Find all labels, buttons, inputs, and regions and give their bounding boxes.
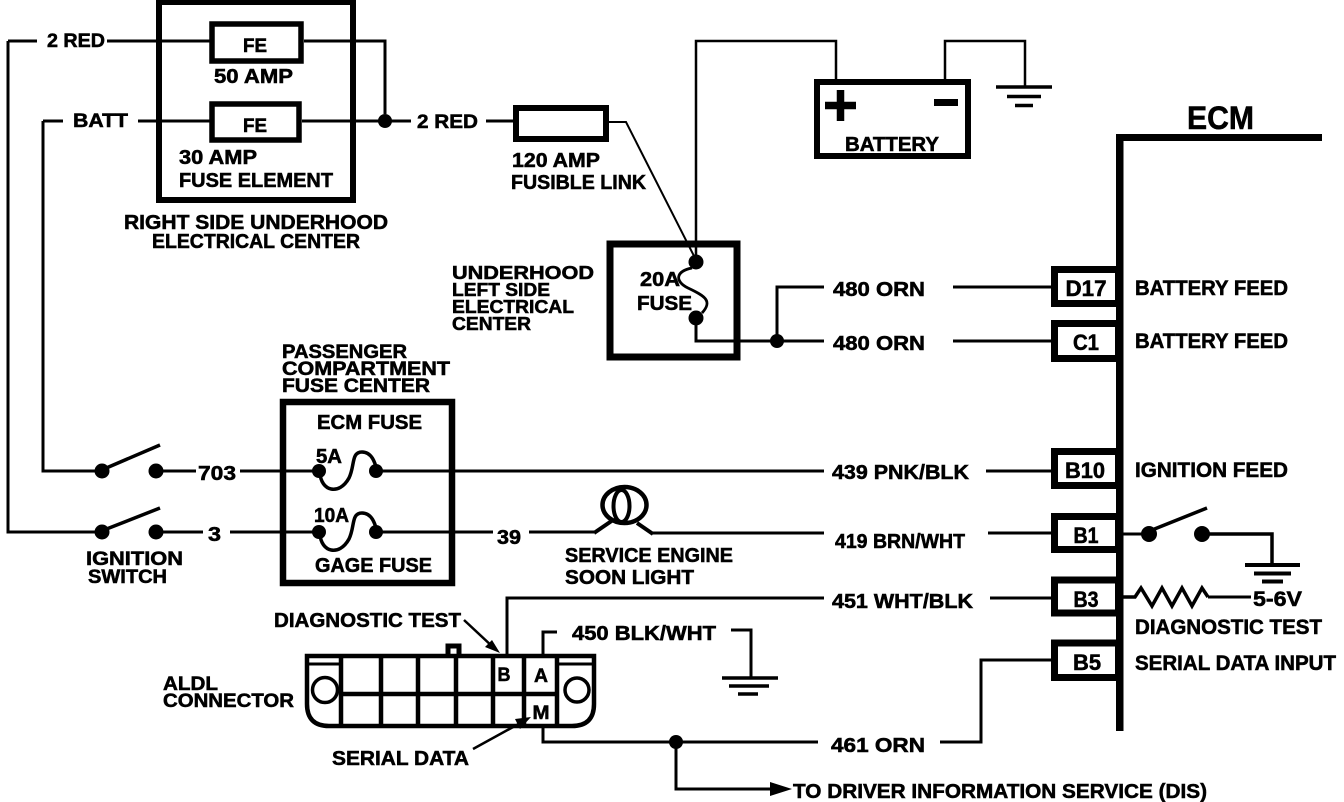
wire 3 into passenger fuse center [230,531,314,534]
node B junction dot (480 ORN) [770,334,784,348]
wire 39 to service engine soon light [529,531,594,534]
connector terminal C1 box [1055,324,1119,359]
svg-text:DIAGNOSTIC TEST: DIAGNOSTIC TEST [274,610,461,632]
svg-text:CONNECTOR: CONNECTOR [163,691,294,712]
wire 461 ORN to connector B5 [940,660,1053,742]
wire 419 BRN/WHT into connector B1 [988,532,1055,535]
diagnostic switch right contact [1194,526,1210,542]
ALDL connector top tab [448,646,459,657]
svg-text:50 AMP: 50 AMP [214,66,293,88]
svg-text:BATTERY FEED: BATTERY FEED [1135,277,1288,300]
wire from 20A fuse output to node B and 480 ORN (C1) [696,325,824,341]
ground G2 symbol (450 BLK/WHT) [722,678,778,694]
lamp base right diagonal [637,523,653,534]
ignition switch pole 1 left contact [95,464,110,479]
svg-text:BATTERY: BATTERY [845,134,940,156]
wire from 30 amp fuse element output through node A to 2 RED label [302,120,411,123]
connector terminal B10 box [1055,452,1119,486]
svg-text:CENTER: CENTER [452,313,531,334]
svg-text:703: 703 [198,463,236,485]
svg-text:BATTERY FEED: BATTERY FEED [1135,330,1288,353]
svg-text:FUSIBLE LINK: FUSIBLE LINK [511,172,647,194]
ALDL connector right mounting hole [565,678,589,702]
diagnostic switch left contact [1141,526,1157,542]
svg-text:B3: B3 [1074,587,1099,612]
wire 461 ORN from ALDL pin M to node C and label [543,727,818,742]
svg-text:461 ORN: 461 ORN [831,735,925,757]
ALDL connector grid verticals [341,658,557,724]
svg-text:439 PNK/BLK: 439 PNK/BLK [832,462,970,484]
svg-text:SERIAL DATA INPUT: SERIAL DATA INPUT [1135,652,1336,675]
svg-text:SWITCH: SWITCH [88,567,167,588]
wire 703 from ignition switch to label [160,470,196,473]
20A fuse bottom terminal dot [689,311,704,326]
wire from 50 amp fuse element output to node A [304,41,385,114]
svg-text:120 AMP: 120 AMP [512,150,600,172]
svg-text:B: B [498,665,511,686]
svg-text:10A: 10A [314,505,349,527]
svg-text:DIAGNOSTIC TEST: DIAGNOSTIC TEST [1135,616,1322,639]
wire battery negative to ground G1 [945,41,1025,87]
svg-text:ELECTRICAL CENTER: ELECTRICAL CENTER [152,231,361,253]
svg-text:GAGE FUSE: GAGE FUSE [315,555,432,577]
connector terminal B5 box [1055,643,1119,678]
fuse element FE 30 amp box [212,104,299,140]
svg-text:FE: FE [243,116,267,137]
service engine soon lamp outer circle [603,487,647,523]
ignition switch pole 2 diagonal [104,508,160,530]
wire from node B up to 480 ORN (D17) [777,287,824,341]
svg-text:480 ORN: 480 ORN [833,333,925,355]
fuse F2 left terminal dot [312,525,326,539]
wire 39 from 10A fuse to label [380,531,493,534]
node A junction dot (fuse element output) [378,114,392,128]
ground G1 symbol (battery negative) [996,87,1052,106]
wire battery positive to 20A fuse input [696,41,836,255]
wire BATT label elbow [43,120,63,123]
ALDL connector grid middle horizontal [341,692,557,697]
20A fuse top terminal dot [689,255,704,270]
service engine soon lamp inner loop [614,490,630,522]
svg-text:TO DRIVER INFORMATION SERVICE: TO DRIVER INFORMATION SERVICE (DIS) [793,781,1207,802]
wire from resistor R1 to 5-6V label [1208,596,1251,599]
svg-text:IGNITION FEED: IGNITION FEED [1135,459,1288,482]
battery minus symbol [934,99,958,106]
wire 2 RED into fuse element box [107,40,212,43]
wire 2 RED label elbow (left) [8,40,37,43]
svg-text:SERVICE ENGINE: SERVICE ENGINE [565,545,733,567]
fuse F1 5A element curve [320,452,377,489]
fuse F1 right terminal dot [369,464,383,478]
ignition switch pole 1 diagonal [104,445,160,469]
ECM module outline vertical bar [1116,134,1124,731]
ALDL connector top inner ledge right [557,663,592,666]
wire from diagnostic switch to ground G3 [1208,534,1272,563]
fuse element FE 50 amp box [212,24,301,61]
wire left vertical from 2 RED down to ignition switch feed 3 [8,41,95,532]
svg-text:30 AMP: 30 AMP [179,147,257,169]
svg-text:D17: D17 [1066,276,1107,301]
connector terminal B3 box [1055,580,1119,613]
svg-text:M: M [533,703,550,724]
arrowhead TO DRIVER INFORMATION SERVICE [770,782,792,796]
lamp base left diagonal [594,520,613,533]
ALDL connector left mounting hole [313,678,338,703]
battery plus symbol [825,90,856,121]
passenger compartment fuse center box [283,402,452,583]
wire 450 BLK/WHT label right elbow down to ground G2 [731,630,751,678]
wire from connector B1 to diagnostic switch [1123,533,1144,536]
connector terminal B1 box [1055,517,1119,550]
fuse F1 left terminal dot [312,464,326,478]
ignition switch pole 1 right contact [149,464,164,479]
svg-text:A: A [534,666,548,687]
wire left vertical from BATT down to ignition switch feed 703 [43,121,95,471]
svg-text:BATT: BATT [73,111,128,132]
ignition switch pole 2 left contact [95,525,110,540]
svg-text:3: 3 [208,524,221,546]
wire 480 ORN into connector C1 [953,340,1057,343]
wire 703 into passenger fuse center [240,470,314,473]
svg-text:450 BLK/WHT: 450 BLK/WHT [572,623,716,645]
ignition switch pole 2 right contact [149,525,164,540]
wire 451 WHT/BLK from ALDL pin B up and right to label [507,598,824,654]
svg-text:FE: FE [243,36,267,57]
wire 419 BRN/WHT from lamp to label [652,532,824,535]
node C junction dot (461 ORN) [669,735,683,749]
battery BT1 box [817,82,968,156]
right side underhood electrical center box [159,2,353,200]
svg-text:B5: B5 [1073,650,1101,675]
svg-text:451 WHT/BLK: 451 WHT/BLK [832,591,974,613]
underhood left side electrical center box (20A fuse) [610,244,737,357]
svg-text:FUSE: FUSE [637,293,692,315]
ALDL connector top inner ledge left [309,663,341,666]
svg-text:FUSE CENTER: FUSE CENTER [282,376,430,397]
resistor R1 zigzag from connector B3 [1123,588,1208,606]
svg-text:419 BRN/WHT: 419 BRN/WHT [835,531,965,553]
svg-text:B1: B1 [1074,523,1099,548]
svg-text:ECM: ECM [1187,100,1254,136]
arrow leader from SERIAL DATA label to ALDL pin M [473,721,524,749]
arrowhead of SERIAL DATA leader [515,717,531,729]
svg-text:SOON LIGHT: SOON LIGHT [565,567,694,589]
connector terminal D17 box [1055,270,1119,304]
ground G3 symbol (diagnostic switch) [1245,565,1300,582]
svg-text:5-6V: 5-6V [1253,588,1302,611]
svg-text:FUSE ELEMENT: FUSE ELEMENT [179,170,333,192]
svg-text:39: 39 [497,527,521,549]
wire from fusible link output, diagonal down to 20A fuse [606,122,694,256]
wire 451 WHT/BLK into connector B3 [990,597,1055,600]
wire ALDL pin A to 450 BLK/WHT label elbow [543,632,557,657]
wire BATT into 30 amp fuse element [138,120,212,123]
svg-text:2 RED: 2 RED [417,112,478,133]
arrow leader from DIAGNOSTIC TEST label to ALDL pin B [464,620,494,648]
svg-text:B10: B10 [1065,458,1105,483]
svg-text:5A: 5A [316,446,342,468]
120 amp fusible link box [516,108,606,139]
svg-text:C1: C1 [1073,330,1099,355]
wire 3 from ignition switch to label [160,531,203,534]
ALDL connector body [307,656,594,726]
svg-text:ECM FUSE: ECM FUSE [317,412,422,434]
wire 2 RED into 120 amp fusible link [486,120,516,123]
svg-text:480 ORN: 480 ORN [833,279,925,301]
svg-text:SERIAL DATA: SERIAL DATA [332,748,469,770]
wire 439 PNK/BLK into connector B10 [986,470,1055,473]
arrowhead of DIAGNOSTIC TEST leader [485,640,500,653]
wire 480 ORN into connector D17 [953,286,1054,289]
20A fuse element curve [679,268,707,313]
svg-text:2 RED: 2 RED [47,31,105,52]
ECM module outline top bar [1116,134,1322,141]
fuse F2 10A element curve [320,513,377,550]
wire 439 PNK/BLK from 5A fuse to label [380,470,824,473]
diagnostic test switch diagonal [1152,508,1207,530]
svg-text:20A: 20A [640,269,680,291]
fuse F2 right terminal dot [369,525,383,539]
wire from node C down to DIS arrow [676,742,773,789]
